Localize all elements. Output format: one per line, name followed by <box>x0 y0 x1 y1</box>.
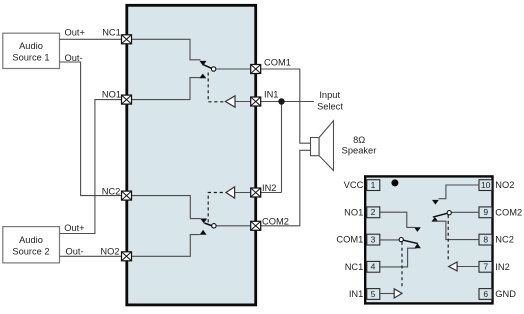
wire IN1 to IN2 vertical <box>281 102 283 193</box>
pin NC1 <box>122 35 132 44</box>
wire pin10 NO2 branch <box>439 185 480 199</box>
speaker LS1 <box>311 121 334 171</box>
IC package outline (pinout) <box>365 176 492 303</box>
svg-text:NO1: NO1 <box>102 90 121 100</box>
pin IN1 <box>251 97 261 106</box>
pin NC2 <box>122 191 132 200</box>
switch SWB NC arrow <box>432 218 438 222</box>
pin IN2 <box>251 188 261 197</box>
switch SW1 pivot circle <box>211 67 215 71</box>
svg-text:Audio: Audio <box>19 235 43 245</box>
wire NC2 contact branch <box>131 196 200 219</box>
audio source 2 box <box>3 227 60 263</box>
svg-text:1: 1 <box>371 180 376 190</box>
wire NO1 contact branch <box>131 78 199 100</box>
svg-text:Out+: Out+ <box>65 28 85 38</box>
wire pin3 COM1 <box>379 239 399 241</box>
switch SWA blade <box>403 240 418 243</box>
wire NC1 contact branch <box>131 39 200 60</box>
svg-text:IN1: IN1 <box>264 89 278 99</box>
wire pin9 COM2 <box>451 211 479 213</box>
svg-text:Input: Input <box>319 90 340 100</box>
svg-text:4: 4 <box>371 262 376 272</box>
svg-text:Select: Select <box>317 102 343 112</box>
svg-text:Out-: Out- <box>66 247 84 257</box>
wire pin2 NO1 branch <box>379 212 414 227</box>
wire pin8 NC2 branch <box>435 221 480 239</box>
svg-text:6: 6 <box>483 289 488 299</box>
switch SWB pivot circle <box>447 211 451 215</box>
inverter B1 (IN1) <box>225 96 235 107</box>
wire IN1 to Input Select <box>235 101 314 103</box>
svg-text:5: 5 <box>371 289 376 299</box>
pin NO1 <box>122 95 132 104</box>
wire pin4 NC1 branch <box>379 248 416 267</box>
svg-text:IN1: IN1 <box>349 289 363 299</box>
wire COM2 to speaker minus <box>216 150 310 226</box>
switch SW2 pivot circle <box>212 224 216 228</box>
wire NO2 contact branch <box>131 235 199 257</box>
pin COM1 <box>251 65 261 74</box>
inverter B4 (pin7 IN2) <box>449 262 457 271</box>
wire AS2 Out+ to NO1 <box>60 100 122 234</box>
svg-text:Source 1: Source 1 <box>12 52 49 62</box>
switch SWA NO arrow <box>415 228 421 232</box>
wire COM1 to speaker plus <box>216 69 311 143</box>
svg-text:COM1: COM1 <box>264 57 291 67</box>
svg-text:IN2: IN2 <box>495 262 509 272</box>
switch SW2 control dashed line <box>208 193 225 223</box>
wire pin5 IN1 <box>379 293 394 295</box>
wire IN2 pin <box>235 192 282 194</box>
pin 6 pad <box>479 289 492 300</box>
pin 4 pad <box>367 261 380 272</box>
svg-text:COM2: COM2 <box>495 207 522 217</box>
pin 10 pad <box>479 180 492 191</box>
switch SW2 NC arrow <box>201 219 207 223</box>
pin COM2 <box>251 221 261 230</box>
switch SWA NC arrow <box>415 244 421 248</box>
svg-text:Speaker: Speaker <box>342 146 377 156</box>
switch SWB control dashed line <box>447 215 449 262</box>
svg-text:2: 2 <box>371 207 376 217</box>
wire pin7 IN2 <box>457 266 479 268</box>
switch SW1 NO arrow <box>200 74 206 78</box>
svg-text:COM2: COM2 <box>262 216 289 226</box>
pin 8 pad <box>479 234 492 245</box>
svg-text:NO2: NO2 <box>100 246 119 256</box>
wire AS1 Out- to NC2 <box>60 62 122 196</box>
svg-text:COM1: COM1 <box>336 235 363 245</box>
pin 5 pad <box>367 289 380 300</box>
pin 2 pad <box>367 207 380 218</box>
svg-text:Source 2: Source 2 <box>12 246 49 256</box>
switch SW1 control dashed line <box>208 73 225 102</box>
switch SW1 blade <box>204 65 212 69</box>
pin 3 pad <box>367 234 380 245</box>
switch SWA control dashed line <box>401 242 403 288</box>
switch SWA pivot circle <box>399 238 403 242</box>
svg-text:NC2: NC2 <box>102 186 121 196</box>
svg-text:GND: GND <box>495 289 516 299</box>
svg-text:8Ω: 8Ω <box>353 135 365 145</box>
pin NO2 <box>122 252 132 261</box>
svg-text:10: 10 <box>481 180 491 190</box>
pin 7 pad <box>479 261 492 272</box>
pin 1 pad <box>367 180 380 191</box>
svg-text:NO2: NO2 <box>495 180 514 190</box>
svg-text:NC2: NC2 <box>495 235 514 245</box>
svg-text:NC1: NC1 <box>345 262 364 272</box>
svg-text:IN2: IN2 <box>262 183 276 193</box>
switch SWB blade <box>433 213 447 217</box>
svg-text:8: 8 <box>483 235 488 245</box>
svg-text:3: 3 <box>371 235 376 245</box>
svg-text:NO1: NO1 <box>344 207 363 217</box>
inverter B2 (IN2) <box>226 187 235 198</box>
wire AS2 Out- to NO2 <box>60 255 122 257</box>
pin 1 indicator dot <box>391 179 398 186</box>
switch SW2 blade <box>204 223 212 226</box>
analog switch block U1 <box>127 5 256 305</box>
inverter B3 (pin5 IN1) <box>394 289 402 298</box>
svg-text:Out-: Out- <box>65 53 83 63</box>
svg-text:7: 7 <box>483 262 488 272</box>
svg-text:9: 9 <box>483 207 488 217</box>
junction node IN1/Input Select <box>278 98 284 104</box>
switch SW2 NO arrow <box>200 230 206 234</box>
switch SW1 NC arrow <box>200 61 206 65</box>
svg-text:Audio: Audio <box>19 41 43 51</box>
switch SWB NO arrow <box>433 200 439 204</box>
pin 9 pad <box>479 207 492 218</box>
audio source 1 box <box>3 33 60 68</box>
wire AS1 Out+ to NC1 <box>60 38 122 40</box>
svg-text:Out+: Out+ <box>64 223 84 233</box>
svg-text:NC1: NC1 <box>102 28 121 38</box>
svg-text:VCC: VCC <box>344 180 364 190</box>
